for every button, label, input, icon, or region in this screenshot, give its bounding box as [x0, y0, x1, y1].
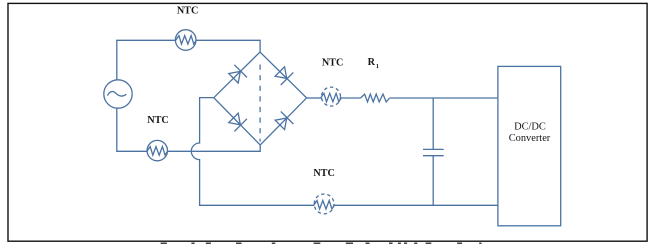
wire: AC source top lead to top rail: [117, 40, 176, 80]
capacitor C1 bottom lead: [432, 156, 434, 206]
caption (cut-off figure caption text tops): [161, 243, 482, 244]
svg-text:NTC: NTC: [322, 58, 344, 69]
wire: DC return to converter: [334, 204, 498, 206]
wire: mid rail from NTC2 to bridge bottom vertex: [168, 145, 261, 151]
NTC thermistor (dashed circle) on DC+ line: [322, 87, 341, 106]
svg-text:NTC: NTC: [177, 6, 199, 17]
wire: bridge right vertex (DC+) to NTC3: [307, 97, 322, 99]
diode D4 (bottom vertex to right vertex): [274, 111, 294, 131]
diode D3 (left vertex to bottom vertex): [227, 112, 247, 132]
capacitor C1 plates: [423, 148, 444, 150]
svg-text:Converter: Converter: [509, 133, 551, 144]
dashed center line of bridge: [259, 65, 261, 142]
svg-text:R: R: [368, 57, 376, 68]
svg-text:1: 1: [376, 63, 379, 70]
NTC thermistor (solid) on top line: [175, 30, 196, 51]
svg-text:NTC: NTC: [147, 115, 169, 126]
diode D1 (left vertex to top vertex): [227, 65, 247, 85]
DC/DC converter block: [498, 66, 561, 225]
svg-text:NTC: NTC: [313, 168, 335, 179]
bridge rectifier diamond: [214, 52, 307, 145]
NTC thermistor (solid) on bottom AC line: [147, 140, 167, 160]
wire: bridge left vertex (DC-) down with hop over AC line: [191, 98, 314, 206]
AC source V1: [104, 80, 132, 108]
NTC thermistor (dashed circle) on DC return line: [314, 194, 334, 214]
svg-text:DC/DC: DC/DC: [514, 122, 546, 133]
resistor R1: [361, 94, 390, 102]
wire: NTC3 to R1: [340, 97, 360, 99]
capacitor C1 top lead: [432, 98, 434, 149]
diode D2 (top vertex to right vertex): [274, 65, 294, 85]
wire: R1 to DC/DC converter (+ bus): [390, 97, 498, 99]
wire: AC source bottom lead to mid rail: [117, 108, 147, 151]
wire: top rail right of NTC1 down to bridge top vertex: [196, 40, 260, 52]
